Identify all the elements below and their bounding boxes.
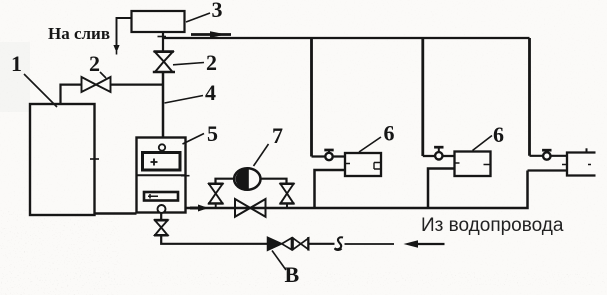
radiator valve K2 <box>434 147 443 159</box>
wire tank3 bottom to valve <box>162 32 164 51</box>
valve V2b (right valve 2, vertical) <box>153 52 175 73</box>
bottom return pipe <box>186 171 528 209</box>
tank T1 (storage tank, label 1) <box>30 104 95 215</box>
svg-text:6: 6 <box>493 122 504 147</box>
radiator valve K3 <box>542 150 551 160</box>
expansion tank T3 (label 3) <box>132 11 185 32</box>
drain arrow tail <box>116 51 118 55</box>
label 1 leader <box>24 74 57 107</box>
radiator 3 vent nub <box>586 148 588 153</box>
supply flow arrow (points left) <box>404 240 445 247</box>
flow arrow right on top pipe <box>191 31 231 38</box>
valve V6 (main gate valve on return) <box>235 199 266 217</box>
wire tank1 top stub <box>61 85 82 104</box>
svg-text:7: 7 <box>272 123 283 148</box>
valve V3 (drain valve under boiler) <box>154 220 169 235</box>
label 6a leader <box>359 137 381 152</box>
wire feed line to supply arrow <box>345 243 395 245</box>
label B leader <box>272 251 286 271</box>
label 2 left leader <box>100 72 106 78</box>
valve bowtie <box>293 238 309 249</box>
lower door mark <box>148 194 158 199</box>
radiator 3 inner ticks <box>562 164 591 166</box>
label 7 leader <box>254 144 269 166</box>
boiler divider <box>137 174 186 176</box>
riser R2 <box>421 38 424 156</box>
svg-text:4: 4 <box>205 80 216 105</box>
wire feed line right of valve <box>309 243 335 245</box>
branch 3 supply <box>530 155 568 157</box>
boiler top circle <box>159 144 165 150</box>
drain pipe (На слив) <box>117 18 132 45</box>
radiator RAD3 (partial at edge) <box>567 153 596 176</box>
radiator 2 inner ticks <box>455 163 491 165</box>
branch 2 supply <box>423 155 455 157</box>
boiler door plus <box>151 159 158 166</box>
pump discharge line <box>261 179 287 184</box>
pump bypass suction line <box>216 179 235 184</box>
label 6b leader <box>473 136 493 151</box>
valve V5 (bypass right) <box>280 184 295 208</box>
label 4 leader <box>165 96 204 104</box>
label 5 leader <box>183 134 205 145</box>
radiator RAD2 (label 6) <box>455 152 491 177</box>
radiator valve K1 <box>324 150 333 160</box>
scan noise left band <box>0 42 30 112</box>
svg-text:В: В <box>285 262 300 287</box>
svg-text:1: 1 <box>11 51 22 76</box>
valve V4 (bypass left) <box>208 184 224 208</box>
svg-text:6: 6 <box>384 121 395 146</box>
pump P7 circle <box>234 168 260 190</box>
boiler U5 (label 5) <box>137 138 186 213</box>
valve bar left <box>291 237 293 251</box>
node junction tick <box>158 36 167 38</box>
valve bar right <box>307 237 309 251</box>
boiler bottom circle <box>158 205 166 213</box>
wire valve2a to riser <box>111 83 164 85</box>
return 1 <box>315 170 346 208</box>
svg-text:2: 2 <box>206 50 217 75</box>
boiler upper door <box>143 153 181 171</box>
flow arrow right on return pipe <box>198 205 209 212</box>
node tick on tank right edge <box>90 158 99 160</box>
wire boiler to drain valve <box>160 213 162 220</box>
svg-text:На слив: На слив <box>48 24 110 43</box>
label 3 leader <box>186 13 210 22</box>
check valve open triangle <box>282 238 292 250</box>
radiator RAD1 (label 6) <box>345 153 381 176</box>
drain arrowhead <box>113 45 119 53</box>
valve V2a (left valve 2) <box>82 77 111 92</box>
svg-text:5: 5 <box>207 121 218 146</box>
pipe 4 riser valve to boiler <box>162 72 165 138</box>
wire drain valve elbow to feed line <box>161 235 267 244</box>
node stub on boiler right edge <box>181 175 190 177</box>
riser R3 (end of top pipe) <box>528 38 531 156</box>
svg-text:Из водопровода: Из водопровода <box>421 215 564 236</box>
boiler lower door <box>144 192 178 201</box>
riser R1 <box>310 38 313 157</box>
wire arrow dash <box>190 207 200 210</box>
scan speckle lower left <box>0 210 120 295</box>
top supply pipe <box>163 37 530 39</box>
scan speckle bottom band <box>0 272 607 286</box>
fitting squiggle <box>335 237 344 250</box>
check valve B (filled triangle) <box>268 237 282 250</box>
wire tank1 to boiler <box>95 212 137 214</box>
return 3 <box>528 169 568 171</box>
svg-text:2: 2 <box>89 51 100 76</box>
pump filled half <box>236 168 249 189</box>
label 2 right leader <box>173 63 204 65</box>
svg-text:3: 3 <box>212 0 223 22</box>
radiator 1 inner ticks <box>345 163 381 170</box>
return 2 <box>428 169 455 209</box>
branch 1 supply <box>312 155 346 157</box>
